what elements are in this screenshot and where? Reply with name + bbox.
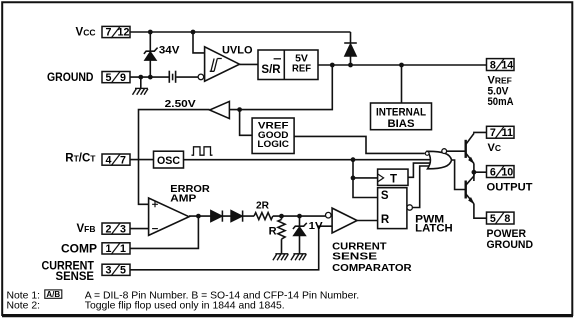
ground symbol at GROUND pin bbox=[133, 88, 148, 94]
svg-text:14: 14 bbox=[501, 59, 513, 71]
wire buffer output 2.50V run bbox=[139, 110, 210, 205]
svg-text:RT/CT: RT/CT bbox=[65, 153, 96, 165]
svg-text:A/B: A/B bbox=[46, 290, 60, 299]
junction node on Vcc rail at UVLO branch bbox=[191, 30, 196, 35]
junction node OSC line upper bbox=[351, 157, 356, 162]
junction node on Vcc rail at zener bbox=[148, 30, 153, 35]
wire VREF rail bbox=[318, 64, 487, 66]
wire COMP pin to error amp output bbox=[130, 216, 198, 248]
svg-text:REF: REF bbox=[292, 63, 312, 75]
op-amp UVLO comparator bbox=[198, 47, 239, 81]
block OSC bbox=[154, 151, 184, 168]
pin box 3/5 bbox=[102, 264, 130, 277]
wire latch Q to OR gate bbox=[412, 166, 430, 208]
wire zener 34V vertical bbox=[149, 32, 151, 77]
transistor Q1 upper totem pole bbox=[466, 134, 474, 164]
svg-text:GROUND: GROUND bbox=[47, 72, 94, 84]
op-amp error amplifier bbox=[149, 198, 189, 235]
diode D2 bbox=[231, 210, 243, 222]
wire VFB pin to error amp bbox=[130, 228, 149, 230]
svg-text:BIAS: BIAS bbox=[388, 118, 415, 130]
wire T output to OR gate bbox=[408, 163, 432, 177]
junction node divider at zener 1V bbox=[297, 214, 302, 219]
ground symbol under resistor R bbox=[273, 254, 288, 260]
junction node ground rail at ground symbol bbox=[138, 75, 143, 80]
pin box 1/1 bbox=[102, 243, 130, 256]
wire OR apex to Q2 base bbox=[452, 160, 466, 190]
battery symbol UVLO threshold bbox=[169, 71, 175, 83]
wire comparator output to latch R bbox=[357, 220, 378, 222]
resistor R vertical bbox=[278, 219, 285, 239]
svg-text:1V: 1V bbox=[309, 220, 323, 232]
resistor 2R bbox=[254, 213, 273, 220]
svg-text:2: 2 bbox=[106, 223, 112, 235]
svg-text:VC: VC bbox=[488, 142, 501, 154]
block INTERNAL BIAS bbox=[371, 103, 432, 130]
svg-text:SENSE: SENSE bbox=[56, 271, 95, 283]
junction node totem pole output bbox=[472, 170, 477, 175]
svg-text:5: 5 bbox=[120, 265, 126, 277]
block S/R + 5V REF bbox=[258, 50, 318, 80]
wire RT/CT pin to OSC bbox=[130, 159, 154, 161]
svg-text:1: 1 bbox=[106, 243, 112, 255]
svg-text:12: 12 bbox=[118, 27, 130, 39]
wire GROUND rail bbox=[130, 76, 169, 78]
svg-text:Note 2:: Note 2: bbox=[7, 301, 41, 312]
svg-text:UVLO: UVLO bbox=[222, 44, 253, 56]
svg-text:11: 11 bbox=[502, 127, 513, 139]
diode D1 bbox=[211, 210, 223, 222]
junction node VREF rail at diode bbox=[348, 63, 353, 68]
svg-text:5: 5 bbox=[490, 213, 496, 225]
zener diode 1V bbox=[293, 223, 307, 236]
wire bootstrap diode verticals bbox=[350, 32, 352, 65]
wire divider rail to comparator bubble bbox=[273, 215, 326, 217]
wire Vcc to UVLO input bbox=[193, 32, 205, 53]
svg-text:OSC: OSC bbox=[157, 155, 180, 167]
svg-text:2R: 2R bbox=[256, 200, 269, 212]
op-amp 2.50V reference buffer bbox=[210, 101, 230, 118]
wire emitter node to pin 6/10 bbox=[474, 164, 487, 182]
zener diode 34V bbox=[144, 48, 158, 61]
svg-text:VFB: VFB bbox=[76, 223, 95, 235]
pin box 5/9 bbox=[102, 71, 130, 84]
wire Q1 collector to pin 7/11 bbox=[474, 132, 487, 133]
junction node VREF rail at internal bias bbox=[399, 63, 404, 68]
svg-text:LATCH: LATCH bbox=[415, 222, 453, 234]
junction node error amp output bbox=[196, 214, 201, 219]
junction node VREF rail at buffer branch bbox=[330, 63, 335, 68]
svg-text:VCC: VCC bbox=[76, 27, 96, 39]
wire ground pin stub bbox=[140, 77, 142, 88]
op-amp current sense comparator bbox=[326, 208, 358, 233]
svg-text:R: R bbox=[381, 214, 390, 226]
svg-text:3: 3 bbox=[106, 265, 112, 277]
pin box 4/7 bbox=[102, 154, 130, 167]
wire current sense pin run bbox=[130, 226, 332, 270]
wire UVLO output to S/R box bbox=[240, 63, 259, 65]
wire Vcc rail bbox=[130, 31, 351, 33]
gate OR output logic bbox=[425, 149, 451, 169]
ground symbol under zener 1V bbox=[291, 254, 306, 260]
pin box 7/12 bbox=[102, 26, 130, 39]
pin box 2/3 bbox=[102, 223, 130, 236]
transistor Q2 lower totem pole bbox=[466, 172, 474, 204]
pin box 6/10 bbox=[487, 165, 515, 178]
diode bootstrap Vcc to VREF bbox=[344, 43, 357, 56]
svg-text:LOGIC: LOGIC bbox=[257, 139, 289, 150]
svg-text:S: S bbox=[381, 190, 389, 202]
wire error amp output row bbox=[189, 215, 254, 217]
svg-text:8: 8 bbox=[504, 213, 510, 225]
svg-text:AMP: AMP bbox=[170, 193, 196, 205]
svg-text:OUTPUT: OUTPUT bbox=[487, 181, 533, 193]
svg-text:COMP: COMP bbox=[61, 244, 97, 256]
wire Q2 emitter to pin 5/8 bbox=[474, 204, 487, 218]
wire zener 1V stubs bbox=[299, 216, 301, 254]
flip-flop T (toggle) bbox=[378, 169, 408, 185]
svg-text:5: 5 bbox=[106, 72, 112, 84]
svg-text:SENSE: SENSE bbox=[332, 251, 377, 263]
svg-text:9: 9 bbox=[120, 72, 126, 84]
svg-text:7: 7 bbox=[490, 127, 496, 139]
wire vref good logic to OR gate bbox=[294, 136, 425, 153]
svg-text:6: 6 bbox=[490, 166, 496, 178]
latch PWM LATCH (S/R) bbox=[378, 188, 413, 229]
svg-text:R: R bbox=[269, 226, 277, 238]
svg-text:VREF: VREF bbox=[488, 74, 512, 86]
wire battery to UVLO bubble bbox=[176, 76, 198, 78]
wire R resistor stubs bbox=[281, 216, 283, 254]
wire OSC output to OR gate bbox=[183, 159, 432, 161]
pin box 5/8 bbox=[487, 212, 515, 225]
junction node buffer output bbox=[237, 107, 242, 112]
svg-text:T: T bbox=[390, 173, 397, 185]
wire internal bias drop bbox=[401, 65, 403, 103]
pin box 8/14 bbox=[487, 58, 515, 71]
svg-text:7: 7 bbox=[120, 154, 126, 166]
junction node divider at resistor R bbox=[279, 214, 284, 219]
wire OR top bubble to Q1 base bbox=[447, 150, 466, 152]
svg-text:INTERNAL: INTERNAL bbox=[376, 107, 426, 119]
svg-text:50mA: 50mA bbox=[488, 96, 514, 108]
svg-text:34V: 34V bbox=[159, 44, 180, 56]
svg-text:8: 8 bbox=[490, 59, 496, 71]
block VREF GOOD LOGIC bbox=[252, 118, 294, 154]
note 1 A/B key box bbox=[45, 290, 62, 298]
junction node ground rail at zener bbox=[148, 75, 153, 80]
svg-text:Toggle flip flop used only in: Toggle flip flop used only in 1844 and 1… bbox=[85, 301, 285, 312]
wire vref rail to buffer input bbox=[229, 65, 332, 110]
svg-text:2.50V: 2.50V bbox=[165, 98, 196, 110]
svg-text:3: 3 bbox=[120, 223, 126, 235]
svg-text:7: 7 bbox=[106, 27, 112, 39]
svg-text:10: 10 bbox=[501, 166, 513, 178]
svg-text:4: 4 bbox=[106, 154, 112, 166]
wire OSC branch to T clock and latch S bbox=[353, 160, 378, 198]
pin box 7/11 bbox=[487, 126, 515, 139]
junction node OSC line at T clock bbox=[351, 176, 356, 181]
clock waveform symbol bbox=[192, 147, 213, 155]
svg-text:S/R: S/R bbox=[261, 64, 281, 76]
svg-text:1: 1 bbox=[120, 243, 126, 255]
svg-text:GROUND: GROUND bbox=[487, 239, 534, 251]
svg-text:COMPARATOR: COMPARATOR bbox=[332, 262, 412, 274]
wire buffer node to vref good logic bbox=[240, 110, 253, 136]
